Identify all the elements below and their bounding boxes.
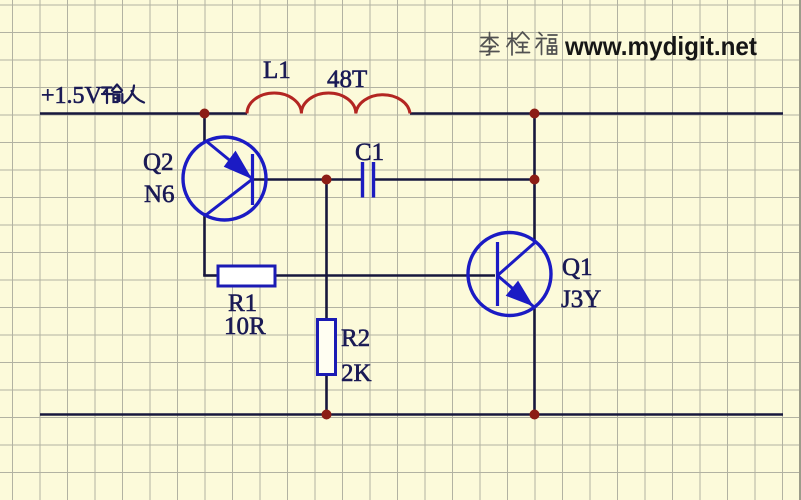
net label +1.5V input: [41, 83, 103, 109]
wire C1 right to node: [375, 178, 535, 181]
wire R1 left lead: [203, 274, 219, 277]
svg-text:48T: 48T: [327, 66, 367, 93]
node junction bottom Q1 (534,414): [530, 410, 540, 420]
value N6: [144, 181, 175, 208]
wire R2 top vertical: [325, 180, 328, 321]
label C1: [355, 139, 384, 166]
svg-text:10R: 10R: [224, 313, 266, 340]
transistor Q2: [183, 137, 266, 220]
value J3Y: [561, 286, 601, 313]
watermark author name (gray): [480, 32, 557, 55]
node junction at top-right (534,113): [530, 109, 540, 119]
value 48T: [327, 66, 367, 93]
resistor R2: [318, 320, 336, 375]
right edge strip: [799, 0, 801, 500]
svg-text:J3Y: J3Y: [561, 286, 601, 313]
svg-text:R2: R2: [341, 325, 370, 352]
svg-text:Q1: Q1: [562, 254, 593, 281]
wire Q1 collector vertical: [533, 114, 536, 242]
label L1: [263, 57, 291, 84]
wire R1 right lead to Q1 base: [274, 274, 495, 277]
svg-text:Q2: Q2: [143, 149, 174, 176]
label Q2: [143, 149, 174, 176]
net label Chinese 输入 glyphs: [102, 85, 144, 104]
wire top-left segment: [40, 112, 247, 115]
node junction C1 right (534,179): [530, 175, 540, 185]
svg-text:2K: 2K: [341, 360, 372, 387]
watermark site url (black): [564, 31, 757, 61]
label R2: [341, 325, 370, 352]
resistor R1: [218, 266, 275, 286]
node junction C1 left (326,179): [322, 175, 332, 185]
wire top-right segment: [410, 112, 783, 115]
svg-text:L1: L1: [263, 57, 291, 84]
transistor Q1: [468, 233, 551, 316]
wire Q2 collector vertical: [203, 213, 206, 276]
svg-text:N6: N6: [144, 181, 175, 208]
node junction bottom R2 (326,414): [322, 410, 332, 420]
label Q1: [562, 254, 593, 281]
wire bottom rail: [40, 413, 783, 416]
inductor L1: [247, 93, 410, 114]
label R1: [228, 290, 257, 317]
wire Q1 emitter vertical: [533, 307, 536, 415]
wire Q2 base to C1 left: [253, 178, 361, 181]
svg-text:C1: C1: [355, 139, 384, 166]
capacitor C1: [363, 162, 374, 198]
svg-text:www.mydigit.net: www.mydigit.net: [564, 31, 757, 61]
value 10R: [224, 313, 266, 340]
svg-text:+1.5V: +1.5V: [41, 83, 103, 109]
value 2K: [341, 360, 372, 387]
wire Q2 emitter vertical: [203, 114, 206, 143]
wire R2 bottom vertical: [325, 374, 328, 415]
node junction at top-left (204,113): [200, 109, 210, 119]
